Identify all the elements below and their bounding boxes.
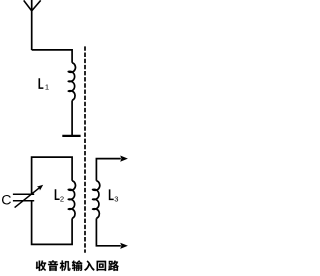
inductor L2 (68, 181, 75, 219)
wire: loop top-left (32, 157, 73, 194)
antenna (24, 0, 41, 50)
inductor L1 (68, 63, 75, 101)
wire: L3 bottom + arrow (96, 218, 128, 249)
label L2 (55, 189, 64, 203)
caption 收音机输入回路 (36, 260, 119, 271)
capacitor C plates (13, 194, 34, 200)
wire (32, 50, 72, 63)
inductor L3 (93, 181, 100, 219)
svg-text:2: 2 (60, 194, 64, 203)
wire (71, 100, 73, 135)
wire: loop bottom (32, 201, 73, 245)
svg-text:C: C (1, 193, 11, 209)
inductor L3 branch: top wire + arrow (96, 156, 128, 181)
dashed core line (84, 46, 86, 252)
label L3 (109, 189, 119, 203)
svg-text:3: 3 (114, 194, 118, 203)
capacitor C arrow (15, 185, 44, 208)
ground (62, 135, 80, 137)
svg-text:1: 1 (45, 83, 49, 92)
label L1 (38, 78, 49, 92)
